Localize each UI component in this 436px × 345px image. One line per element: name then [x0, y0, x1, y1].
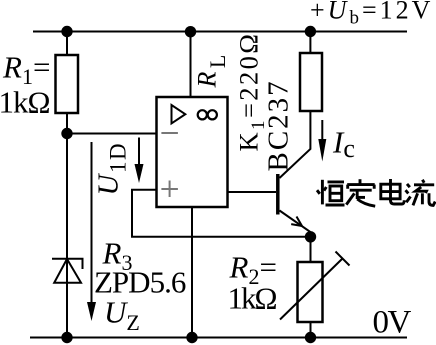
svg-text:0V: 0V — [373, 304, 412, 340]
svg-text:Ic: Ic — [332, 124, 355, 163]
svg-text:+Ub=12V: +Ub=12V — [310, 0, 433, 29]
svg-text:BC237: BC237 — [263, 79, 295, 171]
svg-text:U1D: U1D — [93, 142, 131, 196]
svg-text:UZ: UZ — [104, 295, 140, 336]
svg-text:R1=: R1= — [2, 50, 50, 90]
svg-text:1kΩ: 1kΩ — [228, 281, 277, 316]
svg-text:RL: RL — [193, 51, 231, 88]
svg-text:1kΩ: 1kΩ — [0, 85, 50, 120]
